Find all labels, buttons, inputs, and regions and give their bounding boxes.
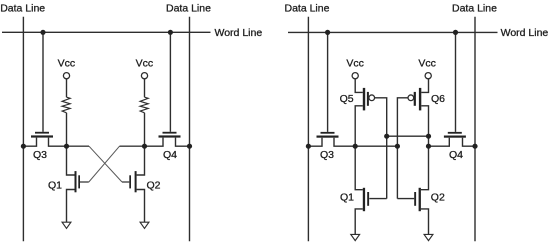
svg-text:Vcc: Vcc: [418, 57, 436, 69]
svg-text:Word Line: Word Line: [501, 27, 549, 39]
svg-text:Data Line: Data Line: [166, 3, 211, 15]
svg-text:Word Line: Word Line: [215, 27, 263, 39]
svg-text:Vcc: Vcc: [136, 57, 154, 69]
svg-text:Vcc: Vcc: [58, 57, 76, 69]
svg-text:Q1: Q1: [340, 192, 354, 204]
svg-text:Q6: Q6: [431, 93, 445, 105]
svg-text:Data Line: Data Line: [452, 3, 497, 15]
svg-text:Data Line: Data Line: [285, 3, 330, 15]
svg-text:Q2: Q2: [431, 192, 445, 204]
svg-text:Q1: Q1: [48, 179, 62, 191]
svg-text:Q5: Q5: [340, 93, 354, 105]
svg-text:Data Line: Data Line: [0, 3, 45, 15]
svg-text:Q4: Q4: [163, 149, 177, 161]
svg-text:Q3: Q3: [33, 149, 47, 161]
svg-text:Vcc: Vcc: [346, 57, 364, 69]
svg-text:Q2: Q2: [147, 179, 161, 191]
svg-text:Q4: Q4: [449, 149, 463, 161]
svg-text:Q3: Q3: [320, 149, 334, 161]
